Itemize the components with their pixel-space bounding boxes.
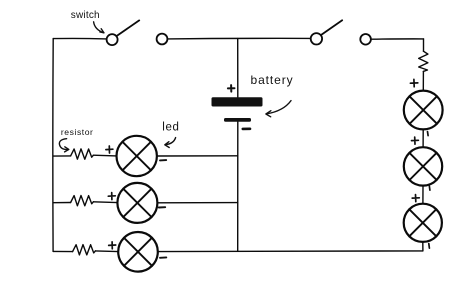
svg-text:battery: battery: [251, 73, 294, 87]
svg-text:resistor: resistor: [61, 127, 94, 137]
svg-text:led: led: [162, 121, 179, 133]
svg-text:switch: switch: [71, 10, 100, 21]
